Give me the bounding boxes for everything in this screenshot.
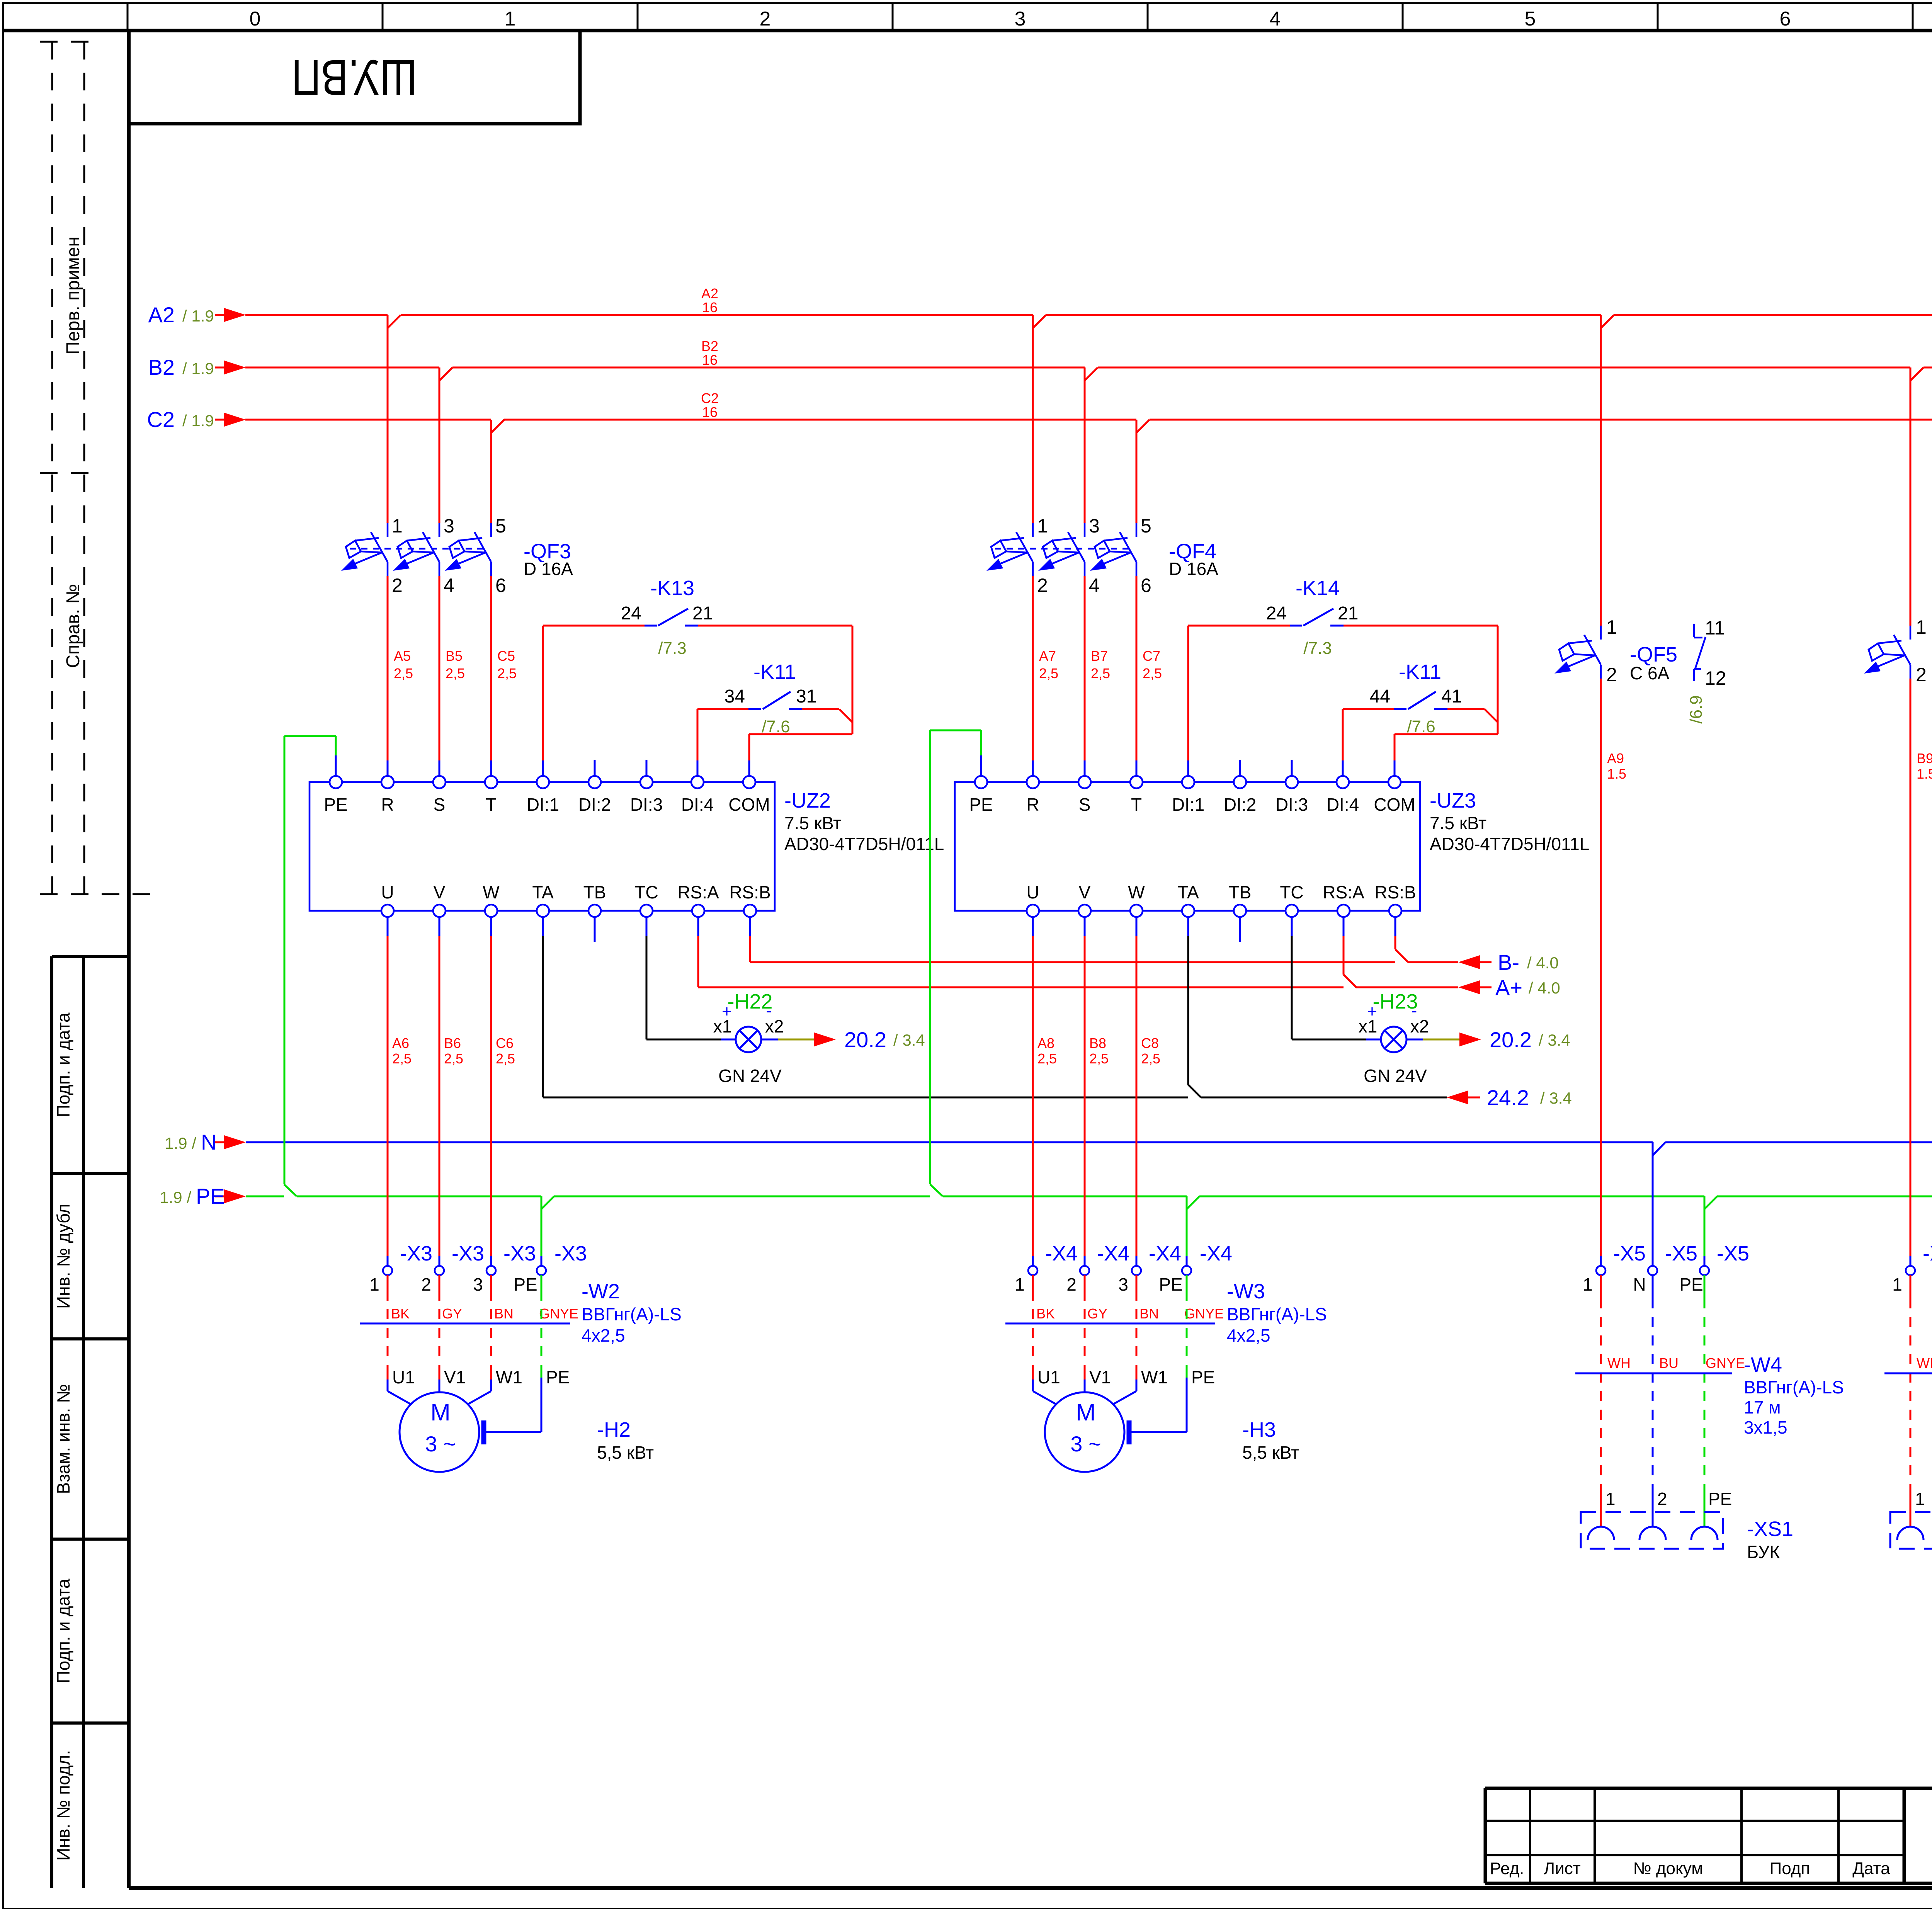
UZ3 bottom terminals <box>1027 905 1039 917</box>
circuit breaker QF3 <box>341 523 388 576</box>
svg-text:20.2: 20.2 <box>844 1027 886 1052</box>
svg-text:16: 16 <box>702 352 718 368</box>
svg-text:Перв. примен: Перв. примен <box>63 236 83 355</box>
wire X3 to motor (dashed cable cores) <box>388 1275 491 1379</box>
svg-text:AD30-4T7D5H/011L: AD30-4T7D5H/011L <box>784 834 944 854</box>
svg-text:3 ~: 3 ~ <box>425 1432 456 1456</box>
relay contact K11 (44-41) <box>1343 709 1498 760</box>
svg-text:2: 2 <box>1657 1489 1667 1509</box>
svg-text:DI:1: DI:1 <box>1172 794 1204 815</box>
svg-text:/ 3.4: / 3.4 <box>893 1031 925 1049</box>
svg-text:11: 11 <box>1705 617 1725 639</box>
svg-text:U1: U1 <box>392 1367 415 1387</box>
svg-text:/ 4.0: / 4.0 <box>1529 979 1560 997</box>
aux contact QF5 11-12 <box>1694 624 1706 681</box>
svg-text:6: 6 <box>1780 8 1791 30</box>
svg-text:Подп. и дата: Подп. и дата <box>53 1579 73 1683</box>
svg-text:7.5 кВт: 7.5 кВт <box>1430 813 1486 833</box>
svg-text:S: S <box>434 794 446 815</box>
svg-text:U1: U1 <box>1037 1367 1060 1387</box>
svg-text:4x2,5: 4x2,5 <box>1227 1325 1270 1345</box>
svg-text:PE: PE <box>969 794 993 815</box>
svg-text:GNYE: GNYE <box>1706 1355 1745 1371</box>
svg-text:T: T <box>486 794 497 815</box>
svg-text:-W4: -W4 <box>1744 1353 1782 1376</box>
ruler numbers <box>250 8 1932 30</box>
svg-text:N: N <box>1633 1274 1646 1294</box>
svg-text:PE: PE <box>1191 1367 1215 1387</box>
cable W4 <box>1600 1275 1602 1526</box>
svg-text:1: 1 <box>392 515 403 537</box>
terminal X4 <box>1028 1266 1037 1275</box>
svg-text:-X3: -X3 <box>554 1242 587 1265</box>
wire QF3 feeder drops <box>388 315 491 523</box>
svg-text:Дата: Дата <box>1852 1859 1890 1878</box>
svg-text:/ 3.4: / 3.4 <box>1540 1089 1572 1107</box>
wire X5 PE drop <box>1704 1196 1706 1256</box>
svg-text:1: 1 <box>1915 1489 1925 1509</box>
svg-text:x2: x2 <box>1410 1016 1429 1036</box>
UZ3 output stubs <box>1033 917 1395 942</box>
svg-text:B2: B2 <box>701 338 718 354</box>
svg-text:B8: B8 <box>1089 1035 1106 1051</box>
svg-text:3: 3 <box>1015 8 1026 30</box>
svg-text:4x2,5: 4x2,5 <box>582 1325 625 1345</box>
svg-text:GNYE: GNYE <box>539 1306 578 1322</box>
wire RS:A to A+ <box>698 936 1492 987</box>
wire QF4 to UZ3 R S T <box>1033 576 1136 760</box>
svg-text:A2: A2 <box>701 286 718 301</box>
wire QF6 to X6 <box>1910 679 1912 1256</box>
svg-text:1: 1 <box>1892 1274 1902 1294</box>
frequency drive UZ2 <box>310 782 775 911</box>
svg-text:x2: x2 <box>765 1016 784 1036</box>
svg-text:/ 3.4: / 3.4 <box>1539 1031 1570 1049</box>
cable W5 <box>1910 1275 1912 1526</box>
svg-text:ВВГнг(А)-LS: ВВГнг(А)-LS <box>582 1304 682 1324</box>
bus N <box>246 1141 1932 1143</box>
svg-text:T: T <box>1131 794 1142 815</box>
svg-text:16: 16 <box>702 404 718 420</box>
svg-text:5: 5 <box>1141 515 1151 537</box>
svg-text:B7: B7 <box>1091 648 1108 664</box>
svg-text:7.5 кВт: 7.5 кВт <box>784 813 841 833</box>
svg-text:PE: PE <box>546 1367 570 1387</box>
svg-text:3: 3 <box>1118 1274 1128 1294</box>
wire RS:B to B- <box>750 936 1492 962</box>
svg-text:-UZ2: -UZ2 <box>784 789 831 812</box>
svg-text:TB: TB <box>583 882 606 902</box>
svg-text:24: 24 <box>1266 603 1287 624</box>
UZ2 PE pigtail <box>284 736 336 1184</box>
svg-text:M: M <box>430 1399 451 1426</box>
svg-text:1: 1 <box>505 8 516 30</box>
svg-text:Инв. № дубл: Инв. № дубл <box>53 1204 73 1309</box>
svg-text:R: R <box>1026 794 1039 815</box>
svg-text:2,5: 2,5 <box>392 1051 412 1067</box>
svg-text:1: 1 <box>1916 616 1927 638</box>
svg-text:x1: x1 <box>1359 1016 1378 1036</box>
node N hop junctions <box>1653 1142 1932 1155</box>
svg-text:-X4: -X4 <box>1149 1242 1181 1265</box>
svg-text:-X4: -X4 <box>1097 1242 1129 1265</box>
motor H3 <box>1033 1379 1136 1472</box>
svg-text:COM: COM <box>728 794 770 815</box>
svg-text:U: U <box>381 882 394 902</box>
svg-text:DI:4: DI:4 <box>1327 794 1359 815</box>
svg-text:RS:B: RS:B <box>1374 882 1416 902</box>
svg-text:-X4: -X4 <box>1045 1242 1078 1265</box>
svg-text:2,5: 2,5 <box>1091 665 1110 681</box>
svg-text:2,5: 2,5 <box>394 665 413 681</box>
svg-text:RS:A: RS:A <box>1323 882 1364 902</box>
svg-text:WH: WH <box>1607 1355 1631 1371</box>
svg-text:4: 4 <box>1089 575 1100 596</box>
svg-text:2: 2 <box>392 575 403 596</box>
svg-text:D 16A: D 16A <box>1169 559 1218 579</box>
terminal X3 <box>383 1266 392 1275</box>
arrow B2 left <box>224 361 246 374</box>
svg-text:B9: B9 <box>1917 750 1932 766</box>
svg-text:2: 2 <box>1037 575 1048 596</box>
svg-text:/ 1.9: / 1.9 <box>182 412 214 430</box>
svg-text:DI:2: DI:2 <box>1224 794 1256 815</box>
svg-text:BK: BK <box>1036 1306 1055 1322</box>
arrow C2 left <box>224 413 246 427</box>
svg-text:PE: PE <box>324 794 347 815</box>
svg-text:Взам. инв. №: Взам. инв. № <box>53 1384 73 1494</box>
wire X4 PE drop <box>1186 1196 1188 1256</box>
svg-text:V: V <box>1079 882 1091 902</box>
svg-text:DI:4: DI:4 <box>681 794 714 815</box>
ruler ticks <box>128 3 1932 31</box>
svg-text:34: 34 <box>724 686 745 707</box>
svg-text:PE: PE <box>514 1274 537 1294</box>
svg-text:/7.6: /7.6 <box>1407 717 1435 736</box>
svg-text:-X5: -X5 <box>1665 1242 1697 1265</box>
svg-text:Подп. и дата: Подп. и дата <box>53 1012 73 1117</box>
svg-text:-K14: -K14 <box>1296 577 1340 600</box>
svg-text:GN 24V: GN 24V <box>718 1066 782 1086</box>
svg-text:ШУ.ВП: ШУ.ВП <box>292 49 417 106</box>
left margin stamp boxes <box>52 956 129 1888</box>
UZ3 PE pigtail <box>930 730 981 1184</box>
svg-text:AD30-4T7D5H/011L: AD30-4T7D5H/011L <box>1430 834 1589 854</box>
svg-text:C 6A: C 6A <box>1630 663 1670 683</box>
wire X3 PE drop <box>541 1196 543 1256</box>
svg-text:-XS1: -XS1 <box>1747 1517 1793 1541</box>
wire X4 to motor (dashed cable cores) <box>1033 1275 1136 1379</box>
svg-text:PE: PE <box>1708 1489 1732 1509</box>
svg-text:1: 1 <box>369 1274 379 1294</box>
svg-text:WH: WH <box>1917 1355 1932 1371</box>
svg-text:V1: V1 <box>444 1367 466 1387</box>
svg-text:1.9 /: 1.9 / <box>165 1134 196 1152</box>
svg-text:-X5: -X5 <box>1613 1242 1646 1265</box>
title block grid <box>1485 1788 1932 1883</box>
svg-text:Справ. №: Справ. № <box>63 584 83 668</box>
svg-text:A7: A7 <box>1039 648 1056 664</box>
svg-text:PE: PE <box>1679 1274 1703 1294</box>
svg-text:C5: C5 <box>497 648 515 664</box>
doc code box top-left (rotated) <box>129 31 580 124</box>
svg-text:/ 1.9: / 1.9 <box>182 359 214 378</box>
svg-text:/7.6: /7.6 <box>762 717 790 736</box>
circuit breaker QF5 with feeder <box>1600 315 1602 626</box>
svg-text:DI:1: DI:1 <box>527 794 559 815</box>
svg-text:PE: PE <box>196 1184 225 1208</box>
circuit breaker QF4 <box>986 523 1033 576</box>
svg-text:12: 12 <box>1705 667 1726 689</box>
svg-text:2,5: 2,5 <box>1141 1051 1160 1067</box>
svg-text:V1: V1 <box>1089 1367 1111 1387</box>
svg-text:/ 1.9: / 1.9 <box>182 307 214 325</box>
svg-text:2,5: 2,5 <box>1039 665 1058 681</box>
svg-text:R: R <box>381 794 394 815</box>
svg-text:16: 16 <box>702 299 718 315</box>
svg-text:24: 24 <box>621 603 641 624</box>
arrow A2 left <box>224 308 246 322</box>
svg-text:17 м: 17 м <box>1744 1397 1781 1417</box>
svg-text:-X5: -X5 <box>1717 1242 1749 1265</box>
svg-text:RS:B: RS:B <box>729 882 770 902</box>
signal lamp H23 <box>1292 936 1366 1039</box>
svg-text:-K11: -K11 <box>753 660 796 684</box>
svg-text:-UZ3: -UZ3 <box>1430 789 1476 812</box>
svg-text:C8: C8 <box>1141 1035 1159 1051</box>
wire QF3 to UZ2 R S T <box>388 576 491 760</box>
svg-text:-H3: -H3 <box>1242 1418 1276 1441</box>
svg-text:2,5: 2,5 <box>1143 665 1162 681</box>
svg-text:2,5: 2,5 <box>496 1051 515 1067</box>
terminal X6 <box>1906 1266 1915 1275</box>
svg-text:0: 0 <box>250 8 261 30</box>
svg-text:A6: A6 <box>392 1035 409 1051</box>
svg-text:GY: GY <box>1087 1306 1107 1322</box>
svg-text:5: 5 <box>495 515 506 537</box>
svg-text:2: 2 <box>421 1274 431 1294</box>
svg-text:21: 21 <box>1338 603 1358 624</box>
svg-text:31: 31 <box>796 686 816 707</box>
svg-text:-W3: -W3 <box>1227 1280 1265 1303</box>
svg-text:-X3: -X3 <box>400 1242 432 1265</box>
svg-text:3: 3 <box>444 515 454 537</box>
svg-text:/7.3: /7.3 <box>1303 639 1332 658</box>
svg-text:Ред.: Ред. <box>1490 1859 1524 1878</box>
frequency drive UZ3 <box>955 782 1420 911</box>
svg-text:-W2: -W2 <box>582 1280 620 1303</box>
svg-text:GNYE: GNYE <box>1184 1306 1224 1322</box>
svg-text:ВВГнг(А)-LS: ВВГнг(А)-LS <box>1227 1304 1327 1324</box>
svg-text:21: 21 <box>692 603 713 624</box>
svg-text:/ 4.0: / 4.0 <box>1527 954 1559 972</box>
node PE hop junctions <box>284 1184 1932 1209</box>
svg-text:C2: C2 <box>147 407 175 432</box>
svg-text:TC: TC <box>634 882 658 902</box>
svg-text:W1: W1 <box>496 1367 522 1387</box>
svg-text:24.2: 24.2 <box>1487 1085 1529 1110</box>
svg-text:BN: BN <box>494 1306 514 1322</box>
UZ2 bottom terminals <box>381 905 394 917</box>
UZ3 top terminals <box>975 776 987 788</box>
svg-text:PE: PE <box>1159 1274 1182 1294</box>
UZ2 top terminals <box>330 776 342 788</box>
svg-text:-X3: -X3 <box>503 1242 536 1265</box>
svg-text:Подп: Подп <box>1770 1859 1810 1878</box>
svg-text:DI:3: DI:3 <box>1276 794 1308 815</box>
svg-text:1: 1 <box>1015 1274 1025 1294</box>
svg-text:/6.9: /6.9 <box>1687 695 1706 723</box>
svg-text:S: S <box>1079 794 1091 815</box>
svg-text:6: 6 <box>495 575 506 596</box>
svg-text:5: 5 <box>1525 8 1536 30</box>
svg-text:ВВГнг(А)-LS: ВВГнг(А)-LS <box>1744 1377 1844 1397</box>
svg-text:2: 2 <box>760 8 771 30</box>
svg-text:TA: TA <box>1177 882 1199 902</box>
svg-text:C2: C2 <box>701 390 719 406</box>
svg-text:V: V <box>434 882 446 902</box>
svg-text:TB: TB <box>1229 882 1252 902</box>
svg-text:A5: A5 <box>394 648 411 664</box>
svg-text:W: W <box>1128 882 1145 902</box>
svg-text:2,5: 2,5 <box>497 665 517 681</box>
arrow PE left <box>215 1196 224 1197</box>
svg-text:RS:A: RS:A <box>677 882 719 902</box>
svg-text:4: 4 <box>444 575 454 596</box>
svg-text:1: 1 <box>1037 515 1048 537</box>
svg-text:TA: TA <box>532 882 554 902</box>
svg-text:C7: C7 <box>1143 648 1160 664</box>
svg-text:-H2: -H2 <box>597 1418 631 1441</box>
svg-text:M: M <box>1076 1399 1096 1426</box>
svg-text:W1: W1 <box>1141 1367 1168 1387</box>
svg-text:B-: B- <box>1498 950 1519 975</box>
svg-text:Инв. № подл.: Инв. № подл. <box>53 1750 73 1861</box>
relay contact K13 <box>543 626 852 760</box>
svg-text:2,5: 2,5 <box>444 1051 463 1067</box>
node A2 hop junctions <box>388 315 1614 328</box>
svg-text:4: 4 <box>1270 8 1281 30</box>
svg-text:D 16A: D 16A <box>524 559 573 579</box>
svg-text:5,5 кВт: 5,5 кВт <box>597 1442 654 1463</box>
svg-text:6: 6 <box>1141 575 1151 596</box>
bus A2 <box>215 314 1932 316</box>
wire TA to 24.2 <box>543 936 1447 1097</box>
relay contact K14 <box>1188 626 1498 760</box>
svg-text:A+: A+ <box>1495 975 1522 1000</box>
cable W3 <box>1005 1323 1215 1325</box>
svg-text:БУК: БУК <box>1747 1542 1780 1562</box>
svg-text:3: 3 <box>1089 515 1100 537</box>
svg-text:2,5: 2,5 <box>1089 1051 1109 1067</box>
svg-text:W: W <box>483 882 500 902</box>
svg-text:1.5: 1.5 <box>1607 766 1626 782</box>
svg-text:GY: GY <box>442 1306 462 1322</box>
svg-text:BN: BN <box>1139 1306 1159 1322</box>
svg-text:-K13: -K13 <box>650 577 694 600</box>
svg-text:1.5: 1.5 <box>1917 766 1932 782</box>
svg-text:44: 44 <box>1370 686 1390 707</box>
svg-text:BU: BU <box>1659 1355 1679 1371</box>
svg-text:-X3: -X3 <box>452 1242 484 1265</box>
svg-text:1: 1 <box>1605 1489 1616 1509</box>
svg-text:1: 1 <box>1583 1274 1593 1294</box>
svg-text:-X4: -X4 <box>1200 1242 1232 1265</box>
svg-text:DI:3: DI:3 <box>630 794 663 815</box>
top ruler band line <box>3 29 1932 32</box>
circuit breaker QF6 with feeder <box>1910 367 1912 626</box>
svg-text:COM: COM <box>1374 794 1415 815</box>
cable W2 <box>360 1323 570 1325</box>
svg-text:B5: B5 <box>446 648 463 664</box>
wire UZ3 U V W to X4 <box>1033 936 1136 1256</box>
svg-text:20.2: 20.2 <box>1490 1027 1532 1052</box>
svg-text:2: 2 <box>1066 1274 1077 1294</box>
svg-text:№ докум: № докум <box>1633 1859 1703 1878</box>
svg-text:5,5 кВт: 5,5 кВт <box>1242 1442 1299 1463</box>
svg-text:2,5: 2,5 <box>446 665 465 681</box>
svg-text:GN 24V: GN 24V <box>1364 1066 1427 1086</box>
relay contact K11 (34-31) <box>697 709 852 760</box>
wire QF4 feeder drops <box>1033 315 1136 523</box>
svg-text:3х1,5: 3х1,5 <box>1744 1417 1787 1437</box>
signal lamp H22 <box>646 936 721 1039</box>
svg-text:A8: A8 <box>1037 1035 1054 1051</box>
terminal X5 <box>1596 1266 1605 1275</box>
svg-text:41: 41 <box>1441 686 1462 707</box>
svg-text:1: 1 <box>1606 616 1617 638</box>
svg-text:A2: A2 <box>148 303 175 327</box>
title block texts <box>1490 1859 1891 1878</box>
svg-text:/7.3: /7.3 <box>658 639 686 658</box>
svg-text:-K11: -K11 <box>1399 660 1441 684</box>
wire QF5 to X5 <box>1600 679 1602 1256</box>
motor H3 ground connection <box>1131 1378 1187 1432</box>
node B2 hop junctions <box>439 367 1923 381</box>
socket XS2 <box>1890 1512 1932 1549</box>
svg-text:B6: B6 <box>444 1035 461 1051</box>
svg-text:x1: x1 <box>713 1016 732 1036</box>
svg-text:2,5: 2,5 <box>1037 1051 1057 1067</box>
wire X5 N drop <box>1652 1142 1654 1266</box>
svg-text:3: 3 <box>473 1274 483 1294</box>
svg-text:C6: C6 <box>496 1035 514 1051</box>
wire UZ2 U V W to X3 <box>388 936 491 1256</box>
svg-text:2: 2 <box>1606 664 1617 685</box>
svg-text:A9: A9 <box>1607 750 1624 766</box>
bus C2 <box>215 419 1932 421</box>
arrow N left <box>215 1141 224 1143</box>
left margin dashed application cells <box>40 42 162 894</box>
motor H2 <box>388 1379 491 1472</box>
bus B2 <box>215 367 1932 369</box>
bus PE <box>246 1196 1932 1197</box>
svg-text:-QF5: -QF5 <box>1630 643 1677 666</box>
svg-text:U: U <box>1026 882 1039 902</box>
svg-text:N: N <box>201 1130 216 1154</box>
socket XS1 <box>1581 1512 1723 1549</box>
svg-text:BK: BK <box>391 1306 410 1322</box>
svg-text:B2: B2 <box>148 355 175 379</box>
svg-text:DI:2: DI:2 <box>578 794 611 815</box>
svg-text:TC: TC <box>1280 882 1303 902</box>
motor H2 ground connection <box>486 1378 541 1432</box>
node C2 hop junctions <box>491 420 1932 433</box>
svg-text:-X6: -X6 <box>1923 1242 1932 1265</box>
UZ2 output stubs <box>388 917 750 942</box>
svg-text:Лист: Лист <box>1544 1859 1581 1878</box>
svg-text:1.9 /: 1.9 / <box>160 1188 191 1206</box>
